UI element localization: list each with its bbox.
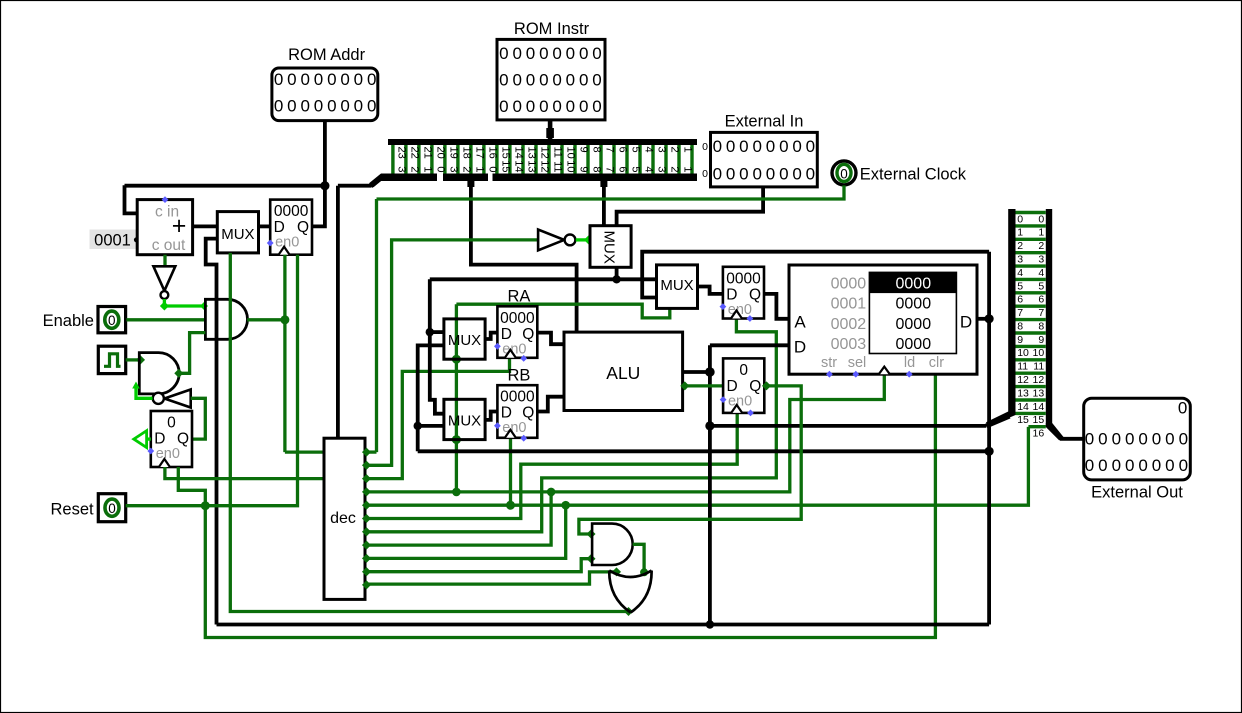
wire ALU out [683,367,715,377]
svg-text:20: 20 [434,147,446,159]
wire RA Q to ALU [537,333,564,345]
svg-text:0: 0 [779,137,788,156]
svg-text:D: D [154,431,165,448]
wire External In to MUX U7 [617,187,764,226]
wire Enable to AND G1 [126,318,205,321]
svg-text:0000: 0000 [831,276,867,293]
svg-text:3: 3 [1038,253,1044,265]
svg-text:0: 0 [526,97,535,116]
svg-text:External Out: External Out [1091,484,1183,502]
svg-text:MUX: MUX [448,332,481,349]
wire M1 select from OR G6 [230,253,633,616]
svg-text:0: 0 [108,501,116,516]
probe External In box [711,132,818,187]
svg-text:0: 0 [512,70,521,89]
svg-text:0000: 0000 [896,276,932,293]
wire ALU out to RAM D in [710,343,789,347]
svg-text:0: 0 [1125,456,1134,475]
junction select RA mux [452,355,461,364]
mux M1 (PC source select) [217,212,258,253]
svg-text:0: 0 [713,164,722,183]
svg-text:0: 0 [354,97,363,116]
svg-text:Reset: Reset [50,500,94,518]
svg-text:6: 6 [616,166,628,172]
svg-text:10: 10 [1033,347,1045,359]
svg-text:8: 8 [590,166,602,172]
svg-text:MUX: MUX [221,226,254,243]
wire RB Q to ALU [537,397,564,412]
probe triangle at FF1 D [134,431,151,448]
svg-text:3: 3 [1017,253,1023,265]
probe ROM Instr label [514,20,590,38]
svg-text:13: 13 [525,160,537,172]
svg-text:10: 10 [564,160,576,172]
wire data bus bottom rail [217,623,990,627]
svg-text:0: 0 [566,97,575,116]
svg-text:0000: 0000 [500,310,535,327]
not gate G3 [153,266,175,299]
svg-text:ld: ld [904,355,915,371]
svg-text:3: 3 [655,166,667,172]
svg-text:19: 19 [447,147,459,159]
svg-text:sel: sel [848,355,867,371]
svg-text:0: 0 [713,137,722,156]
svg-text:RB: RB [507,367,530,385]
svg-text:11: 11 [1017,361,1028,373]
svg-text:3: 3 [447,166,459,172]
splitter SP2 (output bus) [986,209,1064,441]
wire Reset to PC register [126,255,298,506]
wire G3 out to AND G1 (high) [160,299,208,311]
wire data bus to M3 input2 [418,424,444,428]
probe External Out box [1084,398,1191,480]
svg-text:1: 1 [681,147,693,153]
svg-text:0001: 0001 [94,232,131,250]
probe External In label [725,113,804,131]
wire mux inputs vertical A [430,279,444,413]
svg-text:0: 0 [1138,430,1147,449]
flip-flop FF1 [151,411,192,467]
svg-text:16: 16 [486,147,498,159]
wire ROM Addr to PC node [323,121,327,186]
pin RAM ld unconnected [906,371,913,378]
input pin clock pulse [98,346,125,373]
label Reset [50,500,94,518]
svg-text:0: 0 [434,166,446,172]
wire U7 node rail [430,277,657,281]
svg-text:Q: Q [522,326,534,343]
svg-text:22: 22 [408,147,420,159]
svg-text:en0: en0 [156,446,180,462]
svg-text:0: 0 [1152,456,1161,475]
pin adder carry-in unconnected [162,196,169,203]
svg-text:0: 0 [792,137,801,156]
svg-text:0: 0 [1098,456,1107,475]
wire M1 input2 from data bus [206,239,218,625]
wire U7 out [615,267,619,279]
svg-text:2: 2 [668,166,680,172]
svg-text:0: 0 [579,70,588,89]
svg-text:0: 0 [274,70,283,89]
wire splitter group3 to MUX U7 input [600,178,607,226]
svg-text:3: 3 [655,147,667,153]
label RA [507,288,530,306]
svg-text:14: 14 [1017,401,1029,413]
wire ROM Instr to splitter [546,120,554,140]
wire select vertical [452,304,461,496]
wire M1 out to PC register [259,224,271,228]
wire SP2 to External Out [1060,437,1084,441]
svg-text:str: str [821,355,837,371]
wire rail to adder input A [125,185,138,213]
svg-text:0000: 0000 [726,270,761,287]
svg-text:0: 0 [766,164,775,183]
svg-text:9: 9 [577,166,589,172]
svg-text:Enable: Enable [43,312,94,330]
wire dec d8 to clock rail [365,488,555,545]
pin RB reset unconnected [520,435,527,442]
wire clock pulse to AND G2 [126,355,145,364]
svg-text:0000: 0000 [896,316,932,333]
svg-text:13: 13 [525,147,537,159]
mux M3 (RB source) [444,399,485,439]
svg-text:+: + [172,212,187,240]
constant 0001 [90,230,140,250]
wire G4L out to G2 input (high) [132,382,152,399]
wire dec d4 rail [365,374,884,492]
svg-text:1: 1 [681,166,693,172]
wire M3 out to RB [485,412,497,420]
pin R1 en unconnected [720,303,727,310]
svg-text:0: 0 [1085,456,1094,475]
svg-text:0: 0 [300,70,309,89]
svg-text:Q: Q [177,431,189,448]
wire dec d2 to NOT G4 [365,240,538,465]
label External Out [1091,484,1183,502]
svg-text:0: 0 [739,164,748,183]
pin RAM str unconnected [826,371,833,378]
mux U7 (instr/extin select) [590,226,631,268]
mux U8 [657,265,698,309]
svg-text:16: 16 [1033,428,1045,440]
wire dec d5 rail to splitter bit16 [365,427,1028,505]
svg-text:0: 0 [367,97,376,116]
wire R0 Q to AND G5 [579,381,801,538]
input pin Reset [98,494,125,522]
probe ROM Addr label [288,46,366,64]
svg-text:ROM Addr: ROM Addr [288,46,366,64]
and gate G2 [139,353,179,394]
svg-text:D: D [726,378,737,395]
wire RAM readout rail [642,252,989,298]
svg-text:Q: Q [749,378,761,395]
wire data bus rail mid [710,424,986,428]
svg-text:2: 2 [460,166,472,172]
wire dec d3 to RA clock [365,358,510,479]
svg-text:11: 11 [551,161,563,172]
label RB [507,367,530,385]
label External Clock [860,166,967,184]
junction U7 node [612,275,620,283]
wire adder out to MUX M1 [193,224,218,228]
or gate G6 [609,571,651,613]
svg-text:0: 0 [526,44,535,63]
svg-text:0: 0 [167,415,176,432]
svg-text:9: 9 [1017,334,1023,346]
svg-text:1: 1 [1017,227,1023,239]
svg-text:0: 0 [1098,430,1107,449]
svg-text:0: 0 [512,44,521,63]
wire Reset bottom rail to RAM clr [205,373,935,638]
svg-text:0000: 0000 [896,296,932,313]
svg-text:ALU: ALU [606,363,640,383]
svg-text:0: 0 [300,97,309,116]
svg-text:15: 15 [499,160,511,172]
wire G1 out to PC clock and dec [247,255,330,457]
svg-text:0: 0 [1178,399,1187,418]
svg-text:0: 0 [499,44,508,63]
svg-text:0: 0 [792,164,801,183]
svg-text:4: 4 [642,166,654,172]
svg-text:0: 0 [327,97,336,116]
svg-text:External Clock: External Clock [860,166,967,184]
svg-text:0: 0 [526,70,535,89]
svg-text:0: 0 [1179,430,1188,449]
pin RAM sel unconnected [852,371,859,378]
register PC [270,200,312,255]
svg-text:0: 0 [726,137,735,156]
svg-text:RA: RA [507,288,530,306]
svg-text:0: 0 [726,164,735,183]
svg-text:D: D [960,313,972,332]
svg-text:0: 0 [274,97,283,116]
svg-text:13: 13 [1033,387,1045,399]
svg-text:MUX: MUX [448,413,481,430]
svg-text:10: 10 [1017,347,1029,359]
svg-text:0001: 0001 [831,296,867,313]
wire mux inputs vertical B [418,345,444,451]
svg-text:dec: dec [330,510,356,527]
svg-text:8: 8 [590,147,602,153]
wire PC Q feedback [312,186,325,227]
svg-text:en0: en0 [275,235,299,251]
svg-text:15: 15 [499,147,511,159]
pin PC register en unconnected [267,240,274,247]
wire dec d7 to register R0 clock [365,319,776,532]
wire RAM D out [977,314,994,323]
svg-text:12: 12 [1017,374,1029,386]
svg-text:5: 5 [629,147,641,153]
svg-text:15: 15 [1017,414,1029,426]
svg-text:0: 0 [840,166,848,181]
svg-text:0: 0 [566,44,575,63]
svg-text:0003: 0003 [831,336,867,353]
register RB [497,385,537,438]
wire dec d1 to clock line [365,199,377,452]
svg-text:0000: 0000 [896,336,932,353]
svg-text:Q: Q [522,405,534,422]
svg-text:21: 21 [421,147,433,159]
svg-text:2: 2 [1017,240,1023,252]
svg-text:14: 14 [512,160,524,172]
svg-text:0: 0 [499,70,508,89]
node PC bus rail [125,184,325,188]
svg-text:0: 0 [499,97,508,116]
splitter SP1 (ROM instruction 24-bit) [369,139,708,187]
svg-text:0: 0 [1112,430,1121,449]
svg-text:Q: Q [749,286,761,303]
svg-text:7: 7 [603,166,615,172]
svg-text:0: 0 [1125,430,1134,449]
wire R1 Q to RAM A [764,294,789,319]
wire G2 out to AND G1 input3 [174,333,205,378]
svg-text:9: 9 [577,147,589,153]
svg-text:0: 0 [1165,456,1174,475]
pin R0 reset unconnected [747,410,754,417]
register RA [497,306,537,358]
svg-text:0002: 0002 [831,316,867,333]
and gate G5 [592,524,633,565]
ram U9 [789,265,977,374]
svg-text:0: 0 [752,137,761,156]
svg-text:D: D [501,405,512,422]
svg-text:14: 14 [512,147,524,159]
svg-text:0: 0 [566,70,575,89]
probe ROM Addr box [272,68,378,121]
alu U4 [564,332,683,410]
svg-text:0: 0 [806,164,815,183]
svg-text:0: 0 [539,70,548,89]
svg-text:3: 3 [395,166,407,172]
svg-text:4: 4 [642,147,654,153]
svg-text:8: 8 [1038,320,1044,332]
probe ROM Instr box [497,39,605,120]
svg-text:D: D [794,338,806,357]
svg-text:2: 2 [408,166,420,172]
wire RAM data rail [418,449,989,453]
input pin Enable [98,307,126,333]
svg-text:0: 0 [108,313,116,328]
and gate G1 [205,299,247,339]
svg-text:8: 8 [1017,320,1023,332]
pin RB en unconnected [494,422,501,429]
svg-text:6: 6 [616,147,628,153]
svg-text:0: 0 [486,166,498,172]
wire G5 out to OR G6 [633,544,648,576]
wire RAM out vertical [987,252,991,625]
svg-text:6: 6 [1038,294,1044,306]
register R1 (address) [723,267,764,319]
wire select to MUX U8 [456,304,669,318]
svg-text:c out: c out [152,237,186,254]
svg-text:0: 0 [579,44,588,63]
svg-text:0: 0 [739,362,748,379]
svg-text:0: 0 [766,137,775,156]
label Enable [43,312,94,330]
junction RAM rail [985,447,994,456]
wire ALU flag out to R0 [680,381,723,390]
svg-text:14: 14 [1033,401,1045,413]
svg-text:1: 1 [1038,227,1044,239]
svg-text:0: 0 [512,97,521,116]
svg-text:0: 0 [552,97,561,116]
svg-text:D: D [726,286,737,303]
wire U8 out to R1 [698,287,723,294]
svg-text:7: 7 [1017,307,1023,319]
pin R1 reset unconnected [747,315,754,322]
svg-text:18: 18 [460,147,472,159]
svg-text:12: 12 [538,160,550,172]
svg-text:0: 0 [1017,213,1023,225]
svg-text:0: 0 [806,137,815,156]
svg-text:MUX: MUX [601,231,618,264]
svg-text:0: 0 [539,44,548,63]
svg-text:0: 0 [539,97,548,116]
svg-text:0: 0 [327,70,336,89]
svg-text:ROM Instr: ROM Instr [514,20,590,38]
svg-text:A: A [794,313,806,332]
svg-text:clr: clr [929,355,944,371]
svg-text:Q: Q [297,219,309,236]
svg-text:0: 0 [752,164,761,183]
wire dec d11 to OR G6 [365,567,621,584]
wire G2 feedback from FF1 [191,398,206,439]
wire RB clock from d5 rail [506,438,515,510]
svg-text:12: 12 [1033,374,1045,386]
svg-text:0000: 0000 [500,389,535,406]
svg-text:0: 0 [579,97,588,116]
svg-text:0: 0 [779,164,788,183]
wire M2 input1 branch [426,328,444,336]
junction Reset node [201,501,210,510]
junction bus bottom [706,620,714,628]
svg-text:0: 0 [340,97,349,116]
register R0 (flag) [723,358,764,413]
svg-text:0: 0 [1138,456,1147,475]
svg-text:7: 7 [1038,307,1044,319]
svg-text:0: 0 [367,70,376,89]
wire G4 out to U7 select (high) [576,235,593,244]
not gate G4 [538,230,575,251]
svg-text:1: 1 [421,166,433,172]
wire dec d10 to AND G5 [365,554,596,572]
svg-text:13: 13 [1017,387,1029,399]
svg-text:17: 17 [473,147,485,159]
wire ALU out vertical [708,345,712,624]
svg-text:15: 15 [1033,414,1045,426]
decoder dec [324,438,365,599]
junction select RB mux [452,435,461,444]
svg-text:2: 2 [1038,240,1044,252]
svg-text:0: 0 [314,70,323,89]
svg-text:11: 11 [551,147,563,158]
pin R0 en unconnected [720,396,727,403]
svg-text:en0: en0 [728,393,752,409]
svg-text:9: 9 [1038,334,1044,346]
wire data bus to splitter [985,413,1011,428]
svg-text:0: 0 [702,168,708,180]
mux M2 (RA source) [444,319,485,359]
junction PC node [320,181,329,190]
svg-text:12: 12 [538,147,550,159]
svg-text:0: 0 [1038,213,1044,225]
wire dec d9 to bit16 rail [365,501,570,559]
svg-text:0: 0 [592,97,601,116]
svg-text:2: 2 [668,147,680,153]
svg-text:1: 1 [473,166,485,172]
svg-text:0: 0 [702,141,708,153]
svg-text:10: 10 [564,147,576,159]
